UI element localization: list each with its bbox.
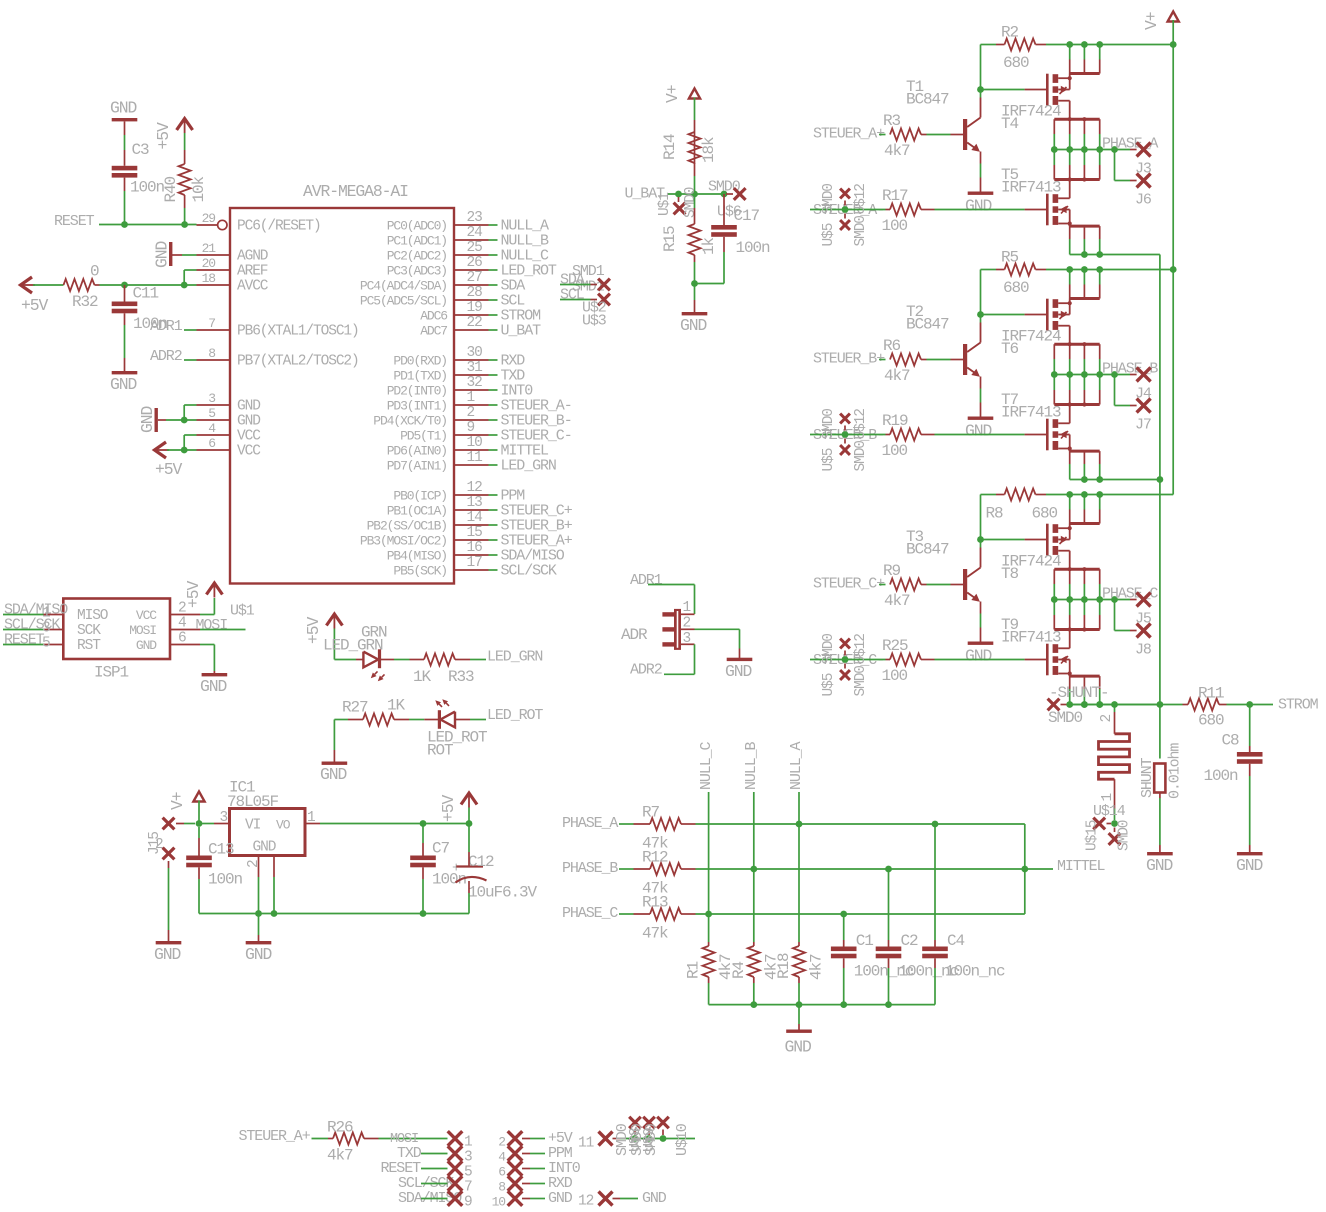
junction (V+ phase A) [1170,41,1177,48]
resistor R18 [793,946,805,977]
svg-text:3: 3 [683,631,691,647]
svg-text:R18: R18 [775,953,793,979]
junction (C4/PHASE_A row) [932,821,939,828]
pad U$9 (SMD0) [643,1117,655,1129]
wire (to GND symbol) [694,284,696,301]
node PHASE_C [1111,596,1118,603]
junction (shunt meander) [1111,701,1118,708]
pin 28 (PC5(ADC5/SCL)) [454,299,489,301]
svg-text:MITTEL: MITTEL [1057,858,1106,875]
pad U$15 (left) [1093,818,1105,830]
pin 3 (ADR) [681,643,695,645]
wire (source stub 2 T4) [1069,119,1071,134]
shunt resistor box (0.01ohm) [1154,764,1165,793]
junction (rail R4) [750,1001,757,1008]
svg-text:RESET: RESET [54,213,95,230]
wire (drain stub 1 T8) [1069,495,1071,510]
wire +5V (VO) [320,823,469,825]
pin 14 (PB2(SS/OC1B)) [454,524,489,526]
wire TXD [489,374,498,376]
svg-text:7: 7 [464,1180,472,1196]
svg-text:10: 10 [492,1195,506,1210]
svg-text:RST: RST [77,638,101,654]
svg-text:6: 6 [208,436,215,451]
wire (R7 to net) [681,823,696,825]
svg-text:4k7: 4k7 [884,142,910,160]
resistor R40 [179,164,191,195]
svg-text:100: 100 [882,667,908,685]
svg-text:J7: J7 [1135,417,1151,434]
wire U_BAT [668,193,726,195]
svg-text:J8: J8 [1135,642,1152,659]
svg-text:3: 3 [464,1150,472,1166]
wire (rail to GND symbol) [258,914,260,936]
wire (drain stub 1 T5) [1053,150,1055,166]
pin 4 (ISP MOSI) [170,629,200,631]
transistor T7 (IRF7413) [1054,403,1099,406]
junction (STEUER_C- pads) [842,656,849,663]
pin 1 (IC1 VO) [305,823,320,825]
wire (drain stub 1 T4) [1069,45,1071,60]
svg-text:GND: GND [965,647,991,666]
junction (STEUER_A- pads) [842,206,849,213]
svg-text:VCC: VCC [237,429,261,445]
wire (collector T3) [980,540,982,548]
svg-text:T6: T6 [1001,340,1019,358]
pad SMD (STEUER_C- lower) [844,664,846,669]
svg-text:4k7: 4k7 [884,592,910,610]
wire RESET (conn) [421,1168,448,1170]
svg-text:8: 8 [498,1180,505,1195]
pad J6 [1137,174,1151,188]
svg-text:2: 2 [467,405,475,421]
svg-text:+5V: +5V [439,795,458,822]
supply +5V (R40 top) [177,119,193,131]
svg-text:V+: V+ [663,85,682,103]
svg-text:12: 12 [467,480,483,496]
svg-text:U$1: U$1 [657,193,673,216]
svg-text:9: 9 [467,420,475,436]
wire (drain stub 4 T7) [1099,375,1101,391]
svg-text:ROT: ROT [427,742,453,760]
wire (R4 to rail) [753,977,755,983]
wire (source stub 2 T9) [1083,676,1085,689]
wire (source stub 1 T8) [1053,569,1055,584]
svg-text:BC847: BC847 [906,316,949,334]
svg-text:7: 7 [208,316,215,331]
wire PHASE_B [619,868,634,870]
wire (LED to R33) [394,659,410,661]
svg-text:AVR-MEGA8-AI: AVR-MEGA8-AI [303,182,408,201]
pin 30 (PD0(RXD)) [454,359,489,361]
capacitor C2 [876,947,902,952]
svg-text:28: 28 [467,285,483,301]
wire (R25 to gate T9) [886,659,891,661]
pad SMD (STEUER_C- upper) [844,651,846,656]
wire (drain stub 2 T8) [1083,495,1085,510]
wire (MITTEL column) [1024,824,1026,914]
resistor R6 [890,354,921,366]
svg-text:GND: GND [725,662,751,681]
pad J7 [1137,399,1151,413]
transistor T1 [963,119,967,150]
transistor T8 (IRF7424) [1046,524,1049,556]
pin 1 (ADR) [681,613,695,615]
wire (drain stub 2 T4) [1083,45,1085,60]
svg-text:SMD0: SMD0 [821,184,837,215]
svg-text:PB4(MISO): PB4(MISO) [387,549,447,564]
svg-text:IRF7413: IRF7413 [1001,404,1061,422]
wire (source stub 3 T9) [1099,676,1101,689]
svg-text:+5V: +5V [21,296,48,315]
wire (C13 to rail) [198,867,200,879]
junction (V+ node IC1) [196,820,203,827]
svg-text:NULL_B: NULL_B [743,741,760,790]
wire (source stub 1 T7) [1069,451,1071,464]
wire (U_BAT to C17) [723,194,725,225]
wire (drain stub 1 T9) [1053,600,1055,616]
svg-text:100n: 100n [130,179,165,197]
wire (+5V to R32) [33,284,64,286]
junction (shunt pads) [1111,820,1118,827]
wire (source stub 4 T4) [1099,119,1101,134]
junction (NULL_A/PHASE_A row) [796,821,803,828]
junction (rail p1) [1066,491,1073,498]
svg-text:4: 4 [178,616,186,632]
wire PHASE_C [619,913,634,915]
svg-text:IRF7413: IRF7413 [1001,179,1061,197]
junction (rail p3) [1096,41,1103,48]
wire STEUER_C- [810,659,886,661]
transistor T4 (IRF7424) [1046,74,1049,106]
svg-text:T4: T4 [1001,115,1019,133]
wire (R12 to net) [681,868,696,870]
svg-text:25: 25 [467,240,483,256]
svg-text:PB5(SCK): PB5(SCK) [393,564,447,579]
pin 6 (VCC) [197,449,231,451]
svg-text:GND: GND [200,677,226,696]
resistor R25 [890,654,921,666]
junction (rail2 p2) [1081,701,1088,708]
svg-text:1: 1 [307,810,315,826]
svg-text:C4: C4 [947,932,965,950]
svg-text:R6: R6 [883,337,901,355]
svg-text:C11: C11 [133,285,159,303]
wire (PHASE_C to J8) [1114,600,1116,631]
wire SCL/SCK (ISP) [3,629,44,631]
wire (source stub 2 T6) [1069,344,1071,359]
ground GND (T1) [968,192,994,195]
svg-text:ADC6: ADC6 [420,309,447,324]
svg-text:R19: R19 [882,412,908,430]
wire GND pins [158,419,166,421]
wire (shunt row) [1067,704,1160,706]
svg-text:STEUER_A+: STEUER_A+ [813,126,885,143]
wire (gate T8) [981,539,1025,541]
wire PHASE_A [1054,149,1130,151]
pad U$14 (below) [1114,828,1116,833]
resistor R1 [703,946,715,977]
transistor T5 (IRF7413) [1054,178,1099,181]
svg-text:C8: C8 [1222,732,1240,750]
wire (AVCC to C11) [124,285,126,302]
wire (to meander) [1114,705,1116,713]
wire MOSI (ISP) [200,629,246,631]
svg-text:STEUER_B+: STEUER_B+ [813,351,885,368]
wire NULL_B [489,239,498,241]
wire (U_BAT to R15) [694,194,696,208]
svg-text:1K: 1K [413,668,432,686]
wire (V+ row to R5) [981,269,997,271]
wire (source rail T9) [1067,704,1160,706]
wire (box to GND) [1159,793,1161,799]
pin 7 (PB6(XTAL1/TOSC1)) [197,329,231,331]
pin 3 (IC1) [199,823,214,825]
junction (rail2 p2) [1081,251,1088,258]
wire (V+ to pin3) [198,801,200,824]
wire (bottom rail IC1) [199,913,469,915]
wire (pulldown rail) [709,1004,935,1006]
junction (shunt s3) [1096,701,1103,708]
svg-text:2: 2 [1099,715,1115,723]
svg-text:14: 14 [467,510,483,526]
junction (NULL_B/PHASE_B row) [750,866,757,873]
wire (drain stub 3 T9) [1083,600,1085,616]
wire (source stub 1 T9) [1069,676,1071,689]
junction (shunt column shunt row) [1157,701,1164,708]
pad J5 [1137,593,1151,607]
svg-text:GND: GND [680,316,706,335]
supply +5V (VO) [461,793,477,805]
wire (source stub 2 T8) [1069,569,1071,584]
junction (rail p1) [1066,41,1073,48]
wire (C3 to RESET net) [124,178,126,191]
svg-text:R8: R8 [986,505,1004,523]
wire SCL [489,299,498,301]
svg-text:13: 13 [467,495,483,511]
svg-text:SHUNT: SHUNT [1139,757,1156,798]
svg-text:+5V: +5V [155,460,182,479]
wire (C8 top) [1249,705,1251,747]
svg-text:20: 20 [202,256,216,271]
svg-text:30: 30 [467,345,483,361]
pad pin 8 (conn) [508,1176,523,1191]
svg-text:R15: R15 [661,226,679,252]
svg-text:SMD0: SMD0 [683,187,699,218]
svg-text:SCK: SCK [77,623,101,639]
svg-text:12: 12 [578,1194,594,1210]
pin 4 (VCC) [197,434,231,436]
pin 32 (PD2(INT0)) [454,389,489,391]
svg-text:680: 680 [1032,505,1058,523]
svg-text:GND: GND [154,945,180,964]
wire AVCC [100,284,197,286]
svg-text:680: 680 [1003,54,1029,72]
svg-text:GND: GND [237,414,260,430]
pad J15 pin2 [163,848,175,860]
node PHASE_B [1051,371,1058,378]
svg-text:+5V: +5V [154,122,173,149]
wire U_BAT [489,329,498,331]
svg-text:R4: R4 [730,961,748,979]
pad J8 [1137,624,1151,638]
node PHASE_C [1051,596,1058,603]
wire (R32 to AVCC) [95,284,100,286]
svg-text:1k: 1k [700,237,718,255]
svg-text:R7: R7 [642,804,660,822]
svg-text:C2: C2 [901,932,919,950]
wire SDA (pad) [560,284,591,286]
shunt resistor SHUNT (meander) [1099,734,1130,779]
wire (C11 to GND) [124,313,126,325]
wire (top rail PHASE_C) [1036,494,1047,496]
svg-text:RESET: RESET [4,632,45,649]
pin 29 (PC6(/RESET)) [197,224,218,226]
wire (R19 to gate T7) [886,434,891,436]
wire (drain stub 4 T9) [1099,600,1101,616]
wire (C7 to rail) [422,867,424,879]
svg-text:100n: 100n [1204,767,1239,785]
resistor R3 [890,129,921,141]
svg-text:PC6(/RESET): PC6(/RESET) [237,219,321,235]
supply +5V (LED_GRN) [326,614,342,626]
wire SCL/SCK [489,569,498,571]
wire (STEUER_A+ to R26) [312,1138,329,1140]
wire (emitter T3) [980,602,982,614]
wire AGND [172,254,182,256]
pin 9 (PD5(T1)) [454,434,489,436]
wire ADR2 (conn) [694,644,696,674]
junction (rail p2) [1081,266,1088,273]
wire (V+ to R14) [694,98,696,121]
pad pin 5 (conn) [448,1161,463,1176]
svg-text:VI: VI [245,817,261,833]
svg-text:GND: GND [237,399,260,415]
svg-text:R14: R14 [661,134,679,160]
svg-text:R9: R9 [883,562,901,580]
ground GND (C11) [112,371,138,374]
svg-text:U$12: U$12 [853,409,869,440]
junction (U_BAT/C17) [721,191,728,198]
svg-text:ADC7: ADC7 [420,324,447,339]
LED LED_GRN [356,659,363,661]
svg-text:R12: R12 [642,849,668,867]
junction (rail2 p3) [1096,701,1103,708]
pad U$8 (SMD0) [629,1117,641,1129]
wire NULL_C [708,792,710,914]
svg-text:24: 24 [467,225,483,241]
svg-text:17: 17 [467,555,483,571]
svg-text:LED_GRN: LED_GRN [487,649,542,666]
svg-text:PD6(AIN0): PD6(AIN0) [387,444,447,459]
svg-text:R17: R17 [882,187,908,205]
capacitor C4 [922,947,948,952]
wire STEUER_A- [489,404,498,406]
wire STEUER_C+ [879,584,886,586]
pad pin 4 (conn) [508,1146,523,1161]
wire PPM (conn) [522,1153,530,1155]
wire (ADR pin2 to GND) [695,628,740,630]
wire (drain stub 1 T7) [1053,375,1055,391]
svg-text:R13: R13 [642,894,668,912]
svg-text:SCL/SCK: SCL/SCK [501,563,557,580]
pin 2 (PD4(XCK/T0)) [454,419,489,421]
pin 18 (AVCC) [197,284,231,286]
svg-text:VCC: VCC [237,444,261,460]
svg-text:ADR1: ADR1 [630,572,663,589]
wire (J15 to GND) [168,868,170,930]
wire (R2 to gate node) [980,45,982,90]
transistor T6 (IRF7424) [1046,299,1049,331]
connector ISP1 box [63,599,170,660]
svg-text:PB3(MOSI/OC2): PB3(MOSI/OC2) [360,534,447,549]
wire RXD [489,359,498,361]
wire STEUER_B- [810,434,886,436]
ground GND (IC1) [246,941,272,944]
svg-text:PC2(ADC2): PC2(ADC2) [387,249,447,264]
junction (C2/PHASE_B row) [885,866,892,873]
svg-text:R2: R2 [1001,24,1019,42]
svg-text:C17: C17 [734,207,760,225]
pin 31 (PD1(TXD)) [454,374,489,376]
svg-text:27: 27 [467,270,483,286]
junction (rail p2) [1081,41,1088,48]
svg-text:21: 21 [202,241,217,256]
svg-text:IRF7413: IRF7413 [1001,629,1061,647]
svg-text:PHASE_C: PHASE_C [562,905,618,922]
pad pin 3 (conn) [448,1146,463,1161]
junction (VO/C7) [420,820,427,827]
junction (STROM/C8) [1246,701,1253,708]
junction (gate node) [977,536,984,543]
svg-text:AREF: AREF [237,264,268,280]
IC AVR-MEGA8-AI box [230,208,454,584]
svg-text:31: 31 [467,360,483,376]
pin 21 (AGND) [197,254,231,256]
wire (R18 to rail) [798,977,800,983]
wire (C2 top) [888,869,890,940]
wire NULL_A [798,792,800,824]
wire (source stub 4 T8) [1099,569,1101,584]
wire SDA/MISO (ISP) [3,614,44,616]
svg-text:PB2(SS/OC1B): PB2(SS/OC1B) [367,519,447,534]
svg-text:GND: GND [1236,856,1262,875]
wire (rail to C12) [468,824,470,853]
svg-text:PC5(ADC5/SCL): PC5(ADC5/SCL) [360,294,447,309]
junction (rail R18) [796,1001,803,1008]
supply V+ (power stage) [1168,12,1179,22]
svg-text:PC1(ADC1): PC1(ADC1) [387,234,447,249]
svg-text:26: 26 [467,255,483,271]
wire MOSI (conn) [364,1138,379,1140]
junction (rail p2) [1081,491,1088,498]
svg-text:4k7: 4k7 [327,1147,353,1165]
svg-text:SMD0: SMD0 [853,216,869,247]
svg-text:R5: R5 [1001,249,1019,267]
ground GND (shunt) [1147,852,1173,855]
wire LED_ROT [470,719,486,721]
svg-text:SMD0: SMD0 [1048,709,1083,727]
junction (shunt s1) [1066,701,1073,708]
svg-text:V+: V+ [168,792,187,810]
resistor R19 [890,429,921,441]
junction (rail C1) [840,1001,847,1008]
svg-text:+5V: +5V [304,617,323,644]
svg-text:6: 6 [178,631,186,647]
svg-text:R32: R32 [72,293,98,311]
capacitor C13 [186,856,212,861]
junction (RESET/C3) [121,221,128,228]
